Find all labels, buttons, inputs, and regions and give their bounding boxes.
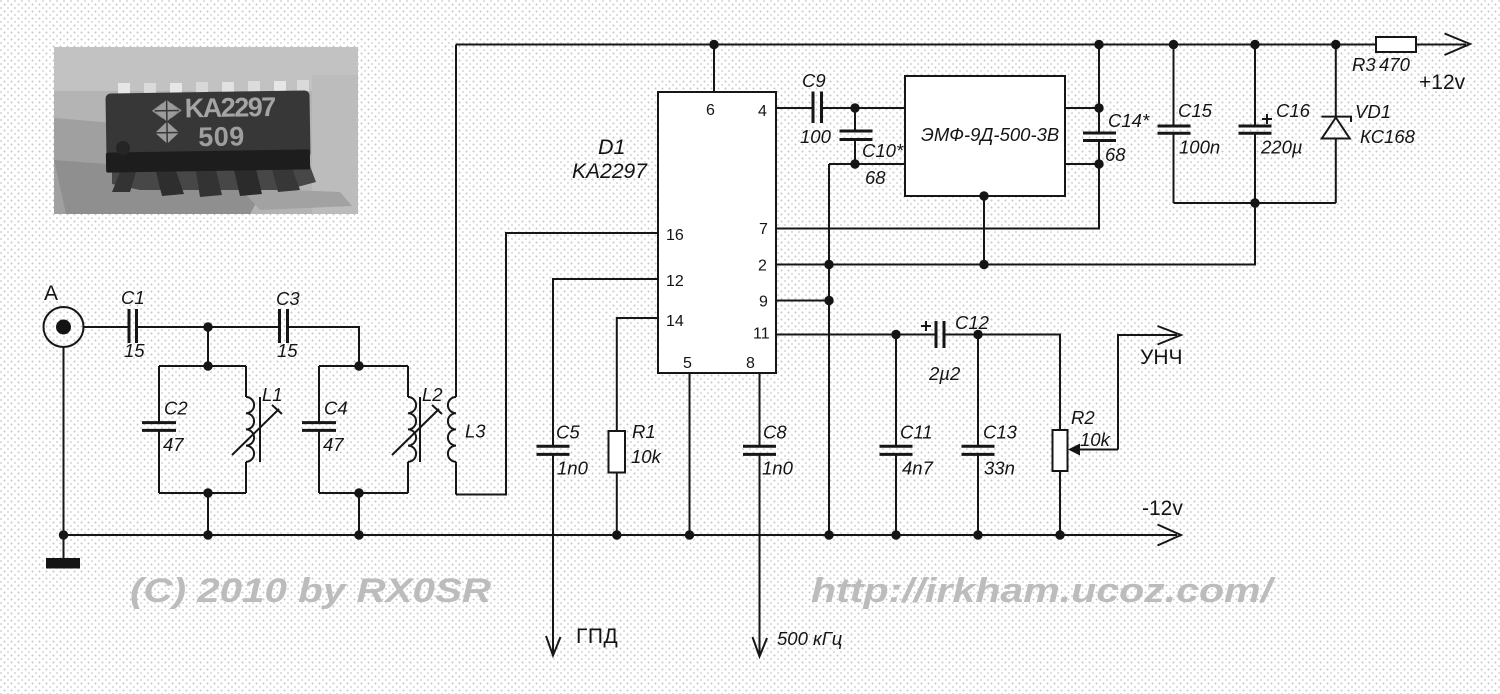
GPD output arrow	[546, 625, 618, 656]
capacitor C16 (polarized)	[1239, 40, 1311, 203]
resistor R3	[1352, 37, 1416, 75]
inductor L3	[448, 45, 486, 495]
svg-text:100n: 100n	[1179, 137, 1220, 158]
svg-text:220µ: 220µ	[1260, 137, 1303, 158]
svg-text:(C) 2010 by RX0SR: (C) 2010 by RX0SR	[130, 572, 492, 610]
top rail wire	[456, 44, 1466, 46]
wire pin 2	[776, 203, 1255, 265]
svg-text:2µ2: 2µ2	[928, 363, 961, 384]
capacitor C12 (polarized)	[921, 312, 990, 384]
svg-text:100: 100	[800, 126, 832, 147]
watermark site url	[811, 572, 1276, 610]
capacitor C10*	[840, 108, 904, 188]
capacitor C5	[537, 422, 589, 479]
svg-text:A: A	[44, 282, 58, 305]
capacitor C14*	[1083, 40, 1150, 165]
wire pin 9	[776, 300, 829, 302]
UNCH output arrow	[1140, 326, 1183, 369]
svg-text:C2: C2	[164, 398, 188, 419]
svg-text:D1: D1	[598, 135, 625, 159]
svg-text:68: 68	[865, 167, 886, 188]
svg-text:4: 4	[758, 103, 767, 120]
svg-text:6: 6	[706, 102, 715, 119]
svg-text:C13: C13	[983, 422, 1018, 443]
wire C1 to junction	[137, 326, 280, 328]
wire C5 to GPD output	[552, 454, 554, 655]
svg-text:12: 12	[666, 273, 684, 290]
capacitor C9	[800, 70, 832, 147]
wire pin 4 to C9	[776, 107, 813, 109]
capacitor C1	[121, 287, 145, 361]
svg-text:ГПД: ГПД	[576, 625, 618, 648]
wire EMF lower output	[1065, 159, 1104, 168]
svg-text:2: 2	[758, 258, 767, 275]
svg-text:470: 470	[1379, 54, 1411, 75]
wire R1 to ground bus	[612, 473, 621, 540]
svg-text:7: 7	[759, 221, 768, 238]
capacitor C8	[743, 422, 794, 479]
wire L3 bottom to pin 16	[456, 233, 658, 495]
svg-text:-12v: -12v	[1142, 497, 1183, 520]
capacitor C11	[880, 335, 934, 540]
svg-text:ЭМФ-9Д-500-3В: ЭМФ-9Д-500-3В	[921, 124, 1059, 145]
watermark (C) 2010 by RX0SR	[130, 572, 492, 610]
svg-text:УНЧ: УНЧ	[1140, 346, 1183, 369]
svg-text:R3: R3	[1352, 54, 1376, 75]
svg-text:C10*: C10*	[862, 140, 904, 161]
wire C3 to tank2 top	[288, 327, 364, 371]
wire C15/C16/VD1 bottom link	[1174, 198, 1336, 207]
svg-text:R1: R1	[632, 421, 656, 442]
wire C12 to R2 top	[944, 330, 1060, 430]
svg-text:C12: C12	[955, 312, 990, 333]
wire C10 bottom / EMF lower input	[829, 159, 905, 168]
wire C8 to 500kHz output	[759, 454, 761, 656]
svg-text:5: 5	[683, 355, 692, 372]
svg-text:L2: L2	[422, 384, 443, 405]
capacitor C3	[276, 288, 300, 361]
svg-text:+12v: +12v	[1419, 71, 1466, 94]
svg-text:15: 15	[277, 340, 298, 361]
inductor L1 (variable)	[232, 366, 283, 493]
inductor L2 (variable)	[392, 366, 443, 493]
wire pin 8 to C8	[759, 373, 761, 446]
svg-text:C15: C15	[1178, 100, 1213, 121]
svg-text:L1: L1	[262, 384, 283, 405]
node A (antenna input label)	[44, 282, 58, 305]
svg-text:509: 509	[198, 121, 245, 152]
photo of IC chip KA2297	[54, 47, 358, 214]
+12v supply arrow	[1419, 34, 1470, 95]
wire EMF upper output	[1065, 103, 1104, 112]
wire pin 6 to top rail	[709, 40, 718, 92]
svg-text:C16: C16	[1276, 100, 1311, 121]
wire pin 12 to C5	[553, 279, 658, 446]
capacitor C4	[302, 366, 348, 493]
wire tank1 bottom to ground bus	[207, 493, 209, 535]
svg-text:47: 47	[163, 434, 184, 455]
resistor R1	[609, 421, 663, 473]
ground bus wire	[59, 530, 1177, 539]
svg-text:C1: C1	[121, 287, 145, 308]
svg-text:C5: C5	[556, 422, 580, 443]
wire R2 bottom to ground bus	[1055, 471, 1064, 540]
capacitor C13	[962, 335, 1018, 540]
svg-text:C14*: C14*	[1108, 110, 1150, 131]
svg-text:10k: 10k	[1080, 429, 1112, 450]
IC D1 KA2297	[572, 92, 776, 373]
electromechanical filter EMF-9D-500-3V	[905, 76, 1065, 196]
svg-text:КС168: КС168	[1360, 126, 1416, 147]
svg-text:1n0: 1n0	[557, 458, 589, 479]
tank1 bottom edge wire	[159, 488, 246, 497]
svg-text:15: 15	[124, 340, 145, 361]
tank2 top edge wire	[319, 365, 408, 367]
wire tank2 bottom to ground bus	[358, 493, 360, 535]
500kHz output arrow	[753, 628, 843, 657]
svg-text:KA2297: KA2297	[572, 159, 648, 183]
svg-text:KA2297: KA2297	[184, 92, 275, 123]
wire pin 5 to ground bus	[685, 373, 694, 540]
svg-text:8: 8	[746, 355, 755, 372]
svg-text:L3: L3	[465, 421, 486, 442]
svg-text:C3: C3	[276, 288, 300, 309]
potentiometer R2	[1053, 407, 1119, 471]
wire C9 to EMF input	[822, 103, 906, 112]
svg-text:C8: C8	[763, 422, 787, 443]
svg-text:VD1: VD1	[1355, 101, 1391, 122]
svg-text:C4: C4	[324, 398, 348, 419]
wire antenna to C1	[84, 326, 130, 328]
svg-text:10k: 10k	[631, 446, 663, 467]
wire antenna to ground	[63, 347, 65, 535]
wire EMF bottom to pin 2 net	[979, 191, 988, 269]
tank2 bottom edge wire	[319, 488, 408, 497]
svg-text:4n7: 4n7	[902, 458, 934, 479]
svg-text:1n0: 1n0	[762, 458, 794, 479]
svg-text:68: 68	[1105, 144, 1126, 165]
wire pin 7 to EMF output	[776, 164, 1099, 229]
wire C10 node down to ground bus	[824, 164, 833, 540]
svg-text:C9: C9	[802, 70, 826, 91]
wire pin 14 to R1	[617, 318, 658, 431]
tank1 top edge wire	[159, 365, 246, 367]
wire junction down to tank1 top	[203, 327, 212, 371]
svg-text:11: 11	[753, 326, 770, 343]
svg-text:C11: C11	[900, 422, 933, 443]
svg-text:9: 9	[759, 294, 768, 311]
junction at C1/C3/tank1	[203, 322, 212, 331]
zener diode VD1 KC168	[1322, 40, 1416, 203]
svg-text:16: 16	[666, 227, 684, 244]
ground symbol	[46, 535, 80, 569]
wire R2 wiper to UNCH output	[1118, 335, 1177, 450]
-12v rail arrow	[1142, 497, 1183, 546]
antenna connector A	[44, 307, 84, 347]
capacitor C2	[142, 366, 188, 493]
svg-text:33n: 33n	[984, 458, 1015, 479]
svg-text:R2: R2	[1071, 407, 1095, 428]
svg-text:500 кГц: 500 кГц	[777, 628, 842, 649]
svg-text:47: 47	[323, 434, 344, 455]
svg-text:http://irkham.ucoz.com/: http://irkham.ucoz.com/	[811, 572, 1276, 610]
wire pin 11 to C12	[776, 330, 936, 339]
svg-text:14: 14	[666, 313, 684, 330]
capacitor C15	[1158, 40, 1221, 203]
